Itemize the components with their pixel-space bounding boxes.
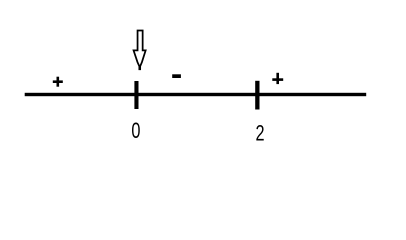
svg-text:0: 0 (131, 118, 140, 143)
tick mark at 2 (255, 81, 259, 110)
plus sign (right region) (272, 73, 283, 84)
plus sign (left region) (53, 77, 63, 87)
minus sign (middle region) (172, 74, 181, 78)
label 2 (255, 121, 264, 146)
number line axis (25, 93, 367, 96)
label 0 (131, 118, 140, 143)
hollow down arrow pointing at 0 (134, 31, 146, 70)
svg-text:2: 2 (255, 121, 264, 146)
tick mark at 0 (134, 81, 138, 109)
